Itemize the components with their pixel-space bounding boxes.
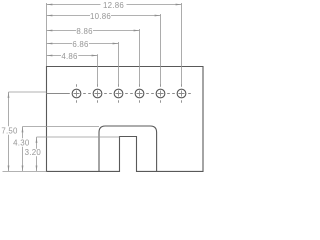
boss outline (rounded step inside part) xyxy=(99,126,157,171)
dim 12.86 xyxy=(47,4,182,6)
hole 5 xyxy=(156,89,165,98)
hole 2 xyxy=(93,89,102,98)
extension line hole centerline left xyxy=(9,91,47,93)
part outline (plate with open bottom slot) xyxy=(47,67,204,172)
svg-text:4.86: 4.86 xyxy=(61,52,78,61)
svg-text:10.86: 10.86 xyxy=(90,12,111,21)
dim 4.30 (vertical) xyxy=(22,127,24,172)
dim 6.86 xyxy=(47,43,119,45)
svg-text:12.86: 12.86 xyxy=(103,1,124,10)
extension line hole 4 xyxy=(139,29,141,85)
dim 4.86 xyxy=(47,55,98,57)
hole 1 xyxy=(72,89,81,98)
dim 10.86 xyxy=(47,15,161,17)
svg-text:3.20: 3.20 xyxy=(25,148,42,157)
dim 3.20 (vertical) xyxy=(36,137,38,171)
extension line hole 6 xyxy=(181,3,183,85)
extension line hole 5 xyxy=(160,14,162,85)
extension line bottom edge xyxy=(3,170,47,172)
extension line hole 2 xyxy=(97,54,99,85)
dim 8.86 xyxy=(47,30,140,32)
svg-text:8.86: 8.86 xyxy=(76,27,93,36)
extension line from part left edge xyxy=(46,3,48,66)
dim 7.50 (vertical) xyxy=(8,92,10,171)
hole 6 xyxy=(177,89,186,98)
centerline segment left of hole 1 xyxy=(47,93,68,95)
hole 3 xyxy=(114,89,123,98)
svg-text:4.30: 4.30 xyxy=(13,139,30,148)
extension line hole 3 xyxy=(118,42,120,85)
extension line boss top xyxy=(23,126,100,128)
hole 4 xyxy=(135,89,144,98)
svg-text:6.86: 6.86 xyxy=(72,40,89,49)
svg-text:7.50: 7.50 xyxy=(1,126,18,135)
extension line slot top xyxy=(37,136,120,138)
